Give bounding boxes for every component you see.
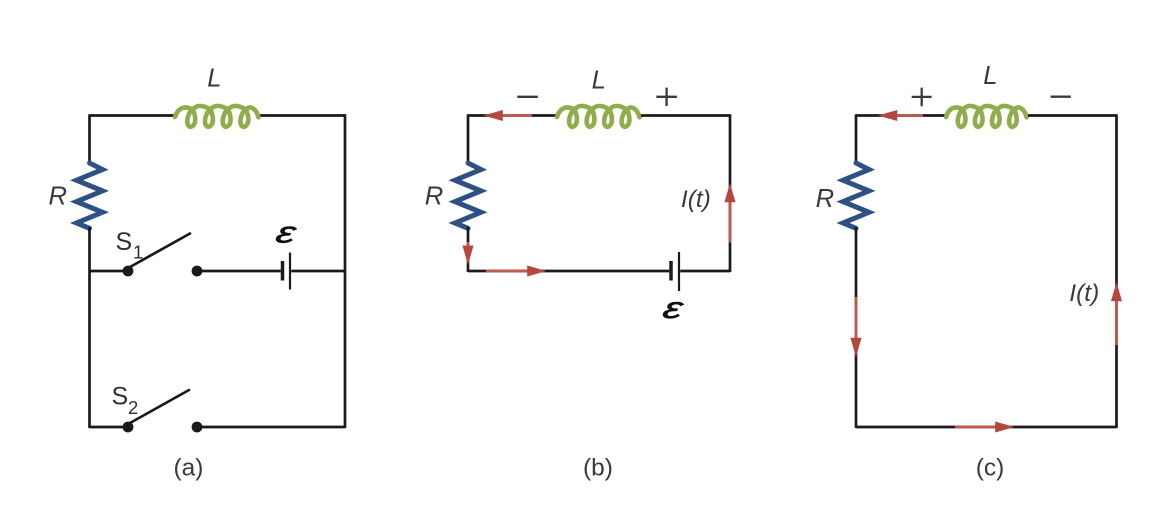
battery (b) long plate (678, 252, 680, 291)
current arrow (b) bottom, pointing right (486, 270, 528, 273)
battery (a) long plate (289, 253, 291, 290)
circuit (b) (425, 67, 736, 482)
wire: (c) top horizontal left of coil (856, 114, 945, 117)
svg-text:I(t): I(t) (681, 186, 711, 213)
svg-text:(c): (c) (976, 454, 1005, 481)
label plus (c) (912, 88, 932, 107)
current arrow (b) top, pointing left (500, 114, 532, 117)
inductor L (c) coil (946, 106, 1027, 127)
wire: (b) bottom right of battery (680, 270, 730, 273)
svg-text:R: R (425, 182, 443, 210)
wire: (a) right vertical (344, 114, 347, 428)
battery (a) short plate (281, 261, 285, 281)
inductor L (b) coil (557, 106, 640, 127)
current arrow (c) left, pointing down (855, 297, 858, 338)
wire: (b) bottom horizontal to battery (468, 270, 669, 273)
wire: (a) top-right horizontal (260, 114, 345, 117)
wire: (b) top horizontal right of coil (641, 114, 730, 117)
inductor L (a) coil (175, 106, 259, 127)
wire: (a) bottom right segment (197, 426, 345, 429)
svg-text:2: 2 (128, 397, 138, 418)
wire: (c) left lower vertical (855, 227, 858, 428)
wire: (b) left lower vertical (467, 227, 470, 272)
svg-text:L: L (592, 67, 606, 95)
wire: (b) left upper vertical (467, 114, 470, 164)
svg-text:(a): (a) (174, 454, 204, 481)
wire: (c) right vertical (1115, 114, 1118, 428)
resistor R (b) (455, 163, 481, 228)
wire: (c) top horizontal right of coil (1028, 114, 1117, 117)
wire: (c) bottom horizontal (856, 426, 1117, 429)
wire: (b) top horizontal left of coil (468, 114, 556, 117)
circuit (c) (816, 62, 1122, 481)
svg-text:R: R (816, 185, 834, 213)
wire: (a) bottom left segment (90, 426, 129, 429)
switch S2 arm (130, 390, 189, 423)
svg-text:1: 1 (133, 242, 143, 263)
label plus (b) (656, 88, 677, 106)
current arrow (c) top, pointing left (895, 114, 923, 117)
svg-text:S: S (112, 383, 129, 411)
switch S1 node dot right (192, 266, 203, 277)
switch S1 arm (130, 234, 190, 268)
battery (b) short plate (669, 261, 673, 281)
resistor R (a) (77, 163, 103, 228)
label minus (b) (517, 96, 538, 98)
switch S1 node dot left (123, 266, 134, 277)
current arrow (b) right, pointing up (729, 201, 732, 243)
wire: (a) left upper vertical (88, 114, 91, 164)
svg-text:R: R (49, 182, 67, 210)
wire: (a) middle branch, dot to battery (197, 270, 281, 273)
svg-text:S: S (116, 228, 133, 256)
wire: (b) right vertical (729, 114, 732, 272)
label minus (c) (1051, 96, 1071, 98)
resistor R (c) (843, 163, 869, 228)
current arrow (c) right, pointing up (1115, 300, 1118, 345)
svg-text:L: L (983, 62, 997, 90)
svg-text:L: L (207, 65, 221, 93)
wire: (c) left upper vertical (855, 114, 858, 164)
switch S2 node dot right (192, 422, 203, 433)
svg-text:(b): (b) (583, 454, 613, 481)
switch S2 node dot left (123, 422, 134, 433)
wire: (a) middle branch, battery to right (291, 270, 345, 273)
svg-text:I(t): I(t) (1069, 280, 1099, 307)
current arrow (c) bottom, pointing right (955, 426, 995, 429)
wire: (a) top-left horizontal (90, 114, 175, 117)
current arrow (b) left, pointing down (467, 242, 470, 247)
circuit (a) (49, 65, 346, 482)
wire: (a) left lower vertical (88, 227, 91, 428)
wire: (a) middle branch left segment (90, 270, 129, 273)
